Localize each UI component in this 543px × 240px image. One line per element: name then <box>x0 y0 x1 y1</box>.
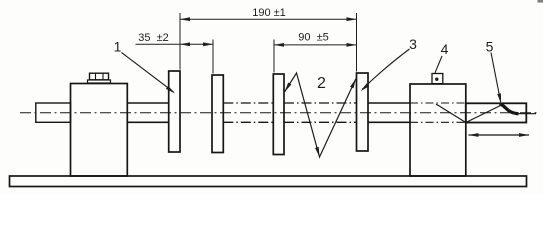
svg-text:4: 4 <box>441 41 449 57</box>
svg-text:1: 1 <box>114 39 122 55</box>
svg-text:2: 2 <box>317 75 326 92</box>
svg-text:90 ±5: 90 ±5 <box>298 32 329 44</box>
svg-text:5: 5 <box>486 39 494 55</box>
svg-text:3: 3 <box>409 36 417 52</box>
svg-text:190 ±1: 190 ±1 <box>252 7 286 19</box>
svg-text:35 ±2: 35 ±2 <box>138 32 169 44</box>
